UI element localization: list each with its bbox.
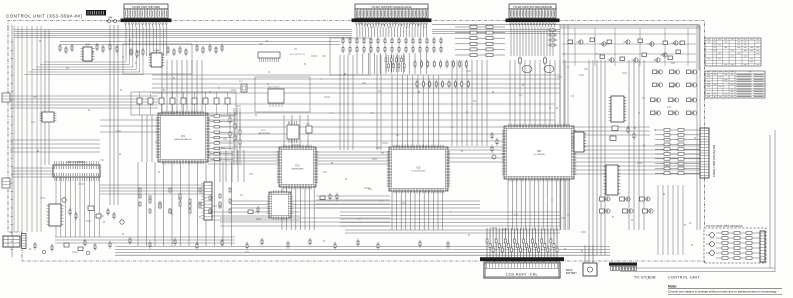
wire bus (left of U1) — [142, 115, 152, 162]
svg-text:TO-XX UNIT (X57-001(1b/3): TO-XX UNIT (X57-001(1b/3) — [706, 224, 743, 228]
IC U14 (reset IC) — [268, 87, 284, 108]
filter L1/L2 (under CN3) — [519, 56, 555, 73]
wire bus (U3-U4 link) — [448, 150, 504, 162]
transistors Q20-Q22 — [706, 233, 714, 256]
svg-text:TO-RX UNIT(X57-001(2/3)#CN#: TO-RX UNIT(X57-001(2/3)#CN# — [513, 5, 552, 9]
connector J1 (black strip) — [86, 10, 106, 16]
wire bus (U2 right rows) — [316, 196, 390, 208]
wire (right tall return) — [770, 130, 775, 272]
resistor array RA11 (final unit lines) — [655, 129, 700, 175]
IC U1 (QFP microprocessor) — [156, 111, 210, 164]
connector CN7 (bottom-right strip) — [609, 263, 637, 271]
wire bus (bottom short left) — [55, 237, 235, 243]
wire bus (left lower rows) — [10, 140, 100, 152]
wire bus (U3 down) — [392, 191, 443, 230]
resistor array RA6 (under U1) — [139, 188, 231, 213]
resistor ladder R40-R48 (right of U1) — [210, 115, 233, 161]
resistor rows R30-R35 — [455, 26, 505, 57]
connector CN1 TO-RX UNIT (X57-00#) — [121, 4, 172, 27]
connector CN9 (right edge vertical) — [760, 231, 765, 262]
resistor array RA4/RA5 — [414, 60, 469, 89]
net labels (CN2 fan) — [359, 23, 426, 27]
wire bus (bottom right link) — [620, 268, 775, 272]
wire bus (right bottom drop) — [658, 185, 683, 255]
svg-text:(TC551001CF): (TC551001CF) — [412, 171, 426, 173]
wire bus (CN4 rows down) — [212, 212, 300, 220]
IC U13 (DIP detector) — [572, 132, 587, 152]
group box (switch row) — [131, 92, 236, 115]
wire bus (U2 up) — [284, 115, 308, 147]
wire bus (mid columns) — [340, 55, 381, 150]
group box (top-left analog) — [123, 44, 192, 74]
wire bus (power section rows) — [562, 34, 696, 62]
resistor chain (col 230-240) — [229, 112, 241, 150]
svg-text:IC##: IC## — [85, 45, 91, 47]
wire bus (key matrix columns) — [56, 177, 99, 237]
terminal TB1 (left edge) — [2, 93, 10, 102]
decoupling capacitors (bottom bus) — [84, 237, 449, 250]
IC U2 (QFP sub-CPU) — [277, 145, 318, 189]
resistor array RA12 (output grid) — [716, 232, 760, 260]
svg-text:LCD ASSY -CKL: LCD ASSY -CKL — [506, 273, 538, 277]
left bus tick marks — [11, 42, 14, 250]
wire elbows (CN1 to left bus) — [24, 56, 143, 75]
label TO-XX UNIT (X57-001(1b/3)) — [706, 224, 743, 228]
wire bus (left of U1 rows) — [100, 120, 158, 132]
note text block — [668, 284, 782, 294]
wire bus (bottom long) — [115, 247, 610, 256]
svg-text:IC##: IC## — [261, 130, 266, 132]
svg-text:IC##: IC## — [154, 51, 160, 53]
wire bus (under U2) — [220, 218, 390, 226]
parts near U8 — [610, 126, 635, 141]
group box (reset circuit) — [255, 77, 310, 112]
wire bus (U4 down) — [508, 179, 570, 230]
IC U8 (DIP EEPROM) — [609, 96, 627, 122]
table T2 (connector chart) — [705, 71, 765, 98]
wire bus (U1-U3 rows) — [208, 152, 389, 164]
capacitor cluster (top-left analog) — [59, 43, 223, 59]
wire bus (right of U1 ladder) — [234, 108, 240, 165]
wire bus (left vertical) — [14, 26, 41, 232]
svg-text:Note:: Note: — [668, 284, 677, 288]
crystal X2 (sub clock) — [239, 81, 247, 92]
wire bus (top horizontal) — [14, 30, 352, 38]
wire fan (CN2 cont) — [357, 53, 427, 74]
resistor array RA6b (under U1 extra) — [139, 194, 231, 213]
connector CN8 FINAL UNIT (pin grid) — [700, 128, 709, 178]
switch row S1-S9 — [137, 92, 230, 115]
wire bus (center data bus 3) — [215, 127, 560, 147]
wire fan (CN2 down) — [357, 27, 427, 37]
svg-text:(M62021FP): (M62021FP) — [258, 133, 270, 135]
IC U7 (voltage detector) — [258, 121, 299, 143]
wire bus (U4 up) — [510, 60, 565, 126]
svg-text:IC## (TC####BF): IC## (TC####BF) — [67, 161, 86, 164]
crystal X1 and load caps — [248, 193, 338, 214]
IC U10 (DIP audio amp) — [47, 204, 64, 226]
table T1 (mode chart) — [705, 38, 761, 66]
wire fan (CN1 down) — [126, 27, 167, 56]
connector CN3 TO-RX UNIT (X57-001(2/3)) — [506, 4, 560, 27]
label FINAL UNIT (X/F(A)-00) vertical — [712, 145, 716, 177]
control unit border (dash-dot outline) — [8, 21, 705, 264]
svg-text:IC## (TC####): IC## (TC####) — [290, 54, 305, 56]
power supply section Q1-Q8 — [548, 29, 685, 62]
label TO-GT(B)/B — [634, 276, 656, 280]
wire bus (left mid vertical) — [110, 25, 118, 205]
resistor array RA3 (under CN2) — [342, 37, 442, 54]
jumper JP1 bubbles — [106, 17, 120, 23]
wire bus (LCD columns) — [589, 60, 605, 255]
IC U9 (DIP driver) — [604, 165, 621, 195]
svg-text:(LC75853N): (LC75853N) — [533, 154, 545, 156]
wire bus (U12 to CN4) — [100, 185, 204, 194]
svg-text:IC5: IC5 — [417, 167, 422, 170]
wire bus (U2 down) — [282, 187, 314, 230]
svg-text:TO-GT(B)/B: TO-GT(B)/B — [634, 276, 656, 280]
inner solid border — [12, 25, 699, 258]
wire bus (left vertical 2) — [45, 30, 49, 165]
wire bus (top right link) — [432, 30, 560, 34]
wire bus (keys rows) — [12, 168, 53, 177]
wire bus (left mid rows) — [10, 96, 158, 108]
wire bus (top horizontal 2) — [60, 42, 340, 45]
IC U4 (QFP LCD driver) — [502, 124, 576, 181]
svg-text:IC8: IC8 — [537, 150, 542, 153]
IC U3 (QFP SRAM) — [387, 145, 450, 193]
connector CN5 pin bar — [480, 257, 564, 261]
terminal TB2 (left edge) — [2, 178, 10, 188]
svg-text:Circuits are subject to change: Circuits are subject to change without n… — [668, 290, 777, 294]
net labels (tiny text marks) — [31, 44, 676, 252]
svg-text:(M38064M8): (M38064M8) — [292, 169, 304, 171]
wire bus (above U1) — [162, 60, 202, 113]
caps C40-C42 (left of U4) — [491, 132, 498, 159]
mute transistors Q16-Q19 — [600, 197, 654, 213]
wire bus (center data bus 2) — [160, 104, 555, 120]
wire bus (col 629-644) — [629, 60, 644, 230]
wire bus (right columns) — [560, 25, 568, 230]
wire bus (col 452-487) — [452, 60, 487, 146]
svg-text:(HD6433642A##F): (HD6433642A##F) — [174, 138, 192, 141]
svg-text:IC3: IC3 — [296, 165, 301, 168]
audio section small parts — [62, 198, 124, 224]
wire bus (center data bus) — [152, 75, 560, 93]
svg-text:CONTROL UNIT: CONTROL UNIT — [668, 276, 700, 280]
wire bus (right edge cols) — [697, 25, 700, 230]
wire bus (U3 up) — [392, 75, 439, 147]
svg-text:JP#: JP# — [108, 17, 113, 20]
battery BT1 (BACK BATTERY) — [566, 245, 597, 276]
wire bus (mid rows 200) — [230, 201, 480, 208]
IC U12 (dual-row key scan IC) — [53, 161, 100, 181]
dual header P2 — [258, 52, 305, 62]
wire fan (CN3 down) — [511, 27, 553, 56]
wire bus (right rows 2) — [555, 127, 650, 135]
connector CN5 LCD ASSY -CKL — [484, 262, 560, 278]
wire bus (bottom right-mid) — [340, 212, 560, 226]
connector CN4 (vertical 12-pin) — [201, 182, 212, 220]
wire bus (CN3 to power) — [560, 26, 700, 28]
wire bus (right rows) — [575, 146, 700, 174]
IC U15 (left small IC) — [40, 112, 57, 122]
transistor Q30 — [306, 124, 312, 134]
svg-text:BATTERY: BATTERY — [566, 272, 577, 275]
svg-text:TO-RX UNIT (X57-00#): TO-RX UNIT (X57-00#) — [132, 5, 160, 9]
resistor array RA10 (LCD lines) — [486, 228, 558, 257]
TO-XX unit dashed box — [704, 228, 766, 263]
svg-text:FINAL UNIT(X/F(A)-00): FINAL UNIT(X/F(A)-00) — [712, 145, 716, 177]
connector CN2 TO-RX UNIT (X57-001(1/3)) — [352, 4, 432, 27]
wire bus (CN4 to U2) — [220, 150, 244, 182]
driver transistors Q10-Q15 — [651, 70, 697, 115]
group box (top-mid analog) — [330, 38, 370, 75]
wire junctions — [29, 39, 695, 251]
bottom-left small parts — [34, 242, 96, 255]
svg-text:CONTROL UNIT (X53-369#-##): CONTROL UNIT (X53-369#-##) — [6, 14, 83, 19]
IC U6 (DIP op-amp) — [149, 51, 165, 68]
resistor array RA3b (dense group) — [385, 55, 405, 72]
IC U11 (QFP shift register) — [267, 190, 293, 220]
connector CN6 (external, bottom-left) — [3, 234, 26, 249]
wire bus (LCD link) — [345, 230, 560, 233]
wire bus (power verticals) — [575, 28, 688, 66]
IC U5 (DIP regulator) — [81, 45, 95, 62]
label CONTROL UNIT (bottom) — [668, 276, 700, 280]
svg-text:IC## #####: IC## ##### — [268, 87, 280, 89]
wire bus (under U1) — [138, 162, 232, 246]
svg-text:TO-RX UNIT(X57-001(1/3)-CN1#: TO-RX UNIT(X57-001(1/3)-CN1# — [372, 5, 412, 9]
svg-text:IC1: IC1 — [181, 135, 186, 138]
